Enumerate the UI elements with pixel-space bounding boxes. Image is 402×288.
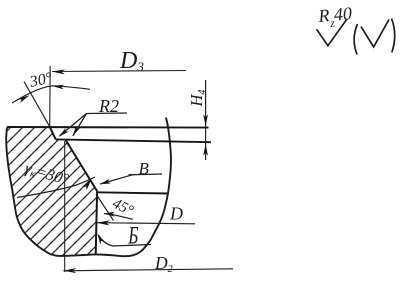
svg-text:D2: D2 [154, 253, 173, 275]
svg-text:B: B [139, 159, 150, 178]
svg-text:D: D [169, 204, 183, 224]
svg-text:H4: H4 [187, 90, 208, 108]
svg-text:γк=30°: γк=30° [23, 160, 71, 190]
svg-text:Б: Б [127, 221, 138, 249]
svg-text:D3: D3 [119, 48, 144, 74]
svg-text:R2: R2 [98, 96, 119, 116]
svg-text:Rz40: Rz40 [317, 3, 354, 31]
